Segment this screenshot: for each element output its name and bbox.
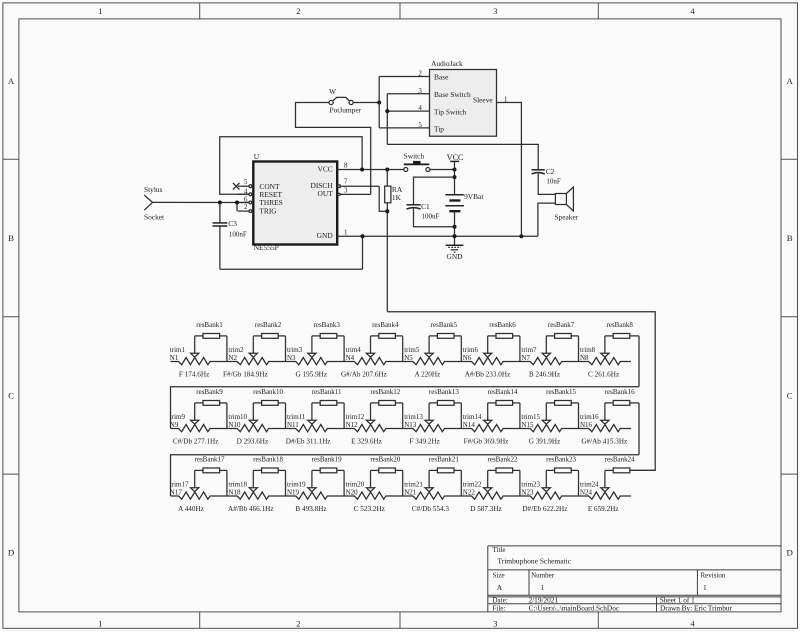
- svg-text:N22: N22: [463, 489, 476, 497]
- svg-text:G#/Ab 207.6Hz: G#/Ab 207.6Hz: [341, 371, 387, 379]
- svg-text:F#/Gb 369.9Hz: F#/Gb 369.9Hz: [464, 438, 509, 446]
- svg-text:N10: N10: [228, 421, 241, 429]
- svg-text:N7: N7: [521, 354, 530, 362]
- svg-text:N4: N4: [346, 354, 355, 362]
- svg-text:10nF: 10nF: [546, 178, 561, 186]
- svg-text:Size: Size: [493, 572, 505, 580]
- svg-text:resBank19: resBank19: [312, 456, 342, 464]
- svg-text:F#/Gb 184.9Hz: F#/Gb 184.9Hz: [223, 371, 268, 379]
- svg-text:trim9: trim9: [170, 413, 186, 421]
- svg-text:N2: N2: [228, 354, 237, 362]
- svg-text:E 329.6Hz: E 329.6Hz: [351, 438, 382, 446]
- svg-text:2: 2: [244, 204, 248, 211]
- svg-text:resBank10: resBank10: [253, 388, 283, 396]
- svg-text:N3: N3: [287, 354, 296, 362]
- svg-text:AudioJack: AudioJack: [431, 59, 463, 68]
- svg-text:resBank21: resBank21: [429, 456, 459, 464]
- svg-text:N12: N12: [346, 421, 359, 429]
- svg-text:B 493.8Hz: B 493.8Hz: [295, 505, 326, 513]
- svg-text:Tip: Tip: [434, 125, 444, 134]
- svg-text:resBank15: resBank15: [546, 388, 576, 396]
- svg-text:trim19: trim19: [287, 480, 306, 488]
- svg-text:1: 1: [703, 583, 707, 592]
- svg-text:resBank1: resBank1: [196, 321, 223, 329]
- svg-text:D 293.6Hz: D 293.6Hz: [237, 438, 269, 446]
- svg-text:A: A: [8, 76, 15, 86]
- svg-text:resBank2: resBank2: [255, 321, 282, 329]
- svg-text:Switch: Switch: [404, 152, 425, 161]
- svg-text:trim13: trim13: [404, 413, 423, 421]
- svg-text:trim8: trim8: [580, 346, 596, 354]
- svg-text:NE555P: NE555P: [254, 243, 279, 252]
- svg-text:VCC: VCC: [317, 164, 332, 173]
- svg-text:trim16: trim16: [580, 413, 599, 421]
- svg-text:resBank23: resBank23: [546, 456, 576, 464]
- svg-text:N5: N5: [404, 354, 413, 362]
- svg-text:B 246.9Hz: B 246.9Hz: [529, 371, 560, 379]
- svg-text:9VBat: 9VBat: [464, 192, 484, 201]
- svg-text:N20: N20: [346, 489, 359, 497]
- svg-text:D: D: [787, 548, 793, 558]
- svg-text:resBank4: resBank4: [372, 321, 399, 329]
- svg-text:Socket: Socket: [144, 213, 165, 222]
- svg-text:G 195.9Hz: G 195.9Hz: [296, 371, 328, 379]
- svg-text:trim21: trim21: [404, 480, 423, 488]
- svg-text:N16: N16: [580, 421, 593, 429]
- svg-text:trim12: trim12: [346, 413, 365, 421]
- svg-text:Revision: Revision: [701, 572, 726, 580]
- svg-text:resBank6: resBank6: [489, 321, 516, 329]
- svg-text:TRIG: TRIG: [259, 206, 277, 215]
- svg-text:trim4: trim4: [346, 346, 362, 354]
- svg-text:D#/Eb 311.1Hz: D#/Eb 311.1Hz: [286, 438, 331, 446]
- svg-text:E 659.2Hz: E 659.2Hz: [588, 505, 619, 513]
- svg-text:N19: N19: [287, 489, 300, 497]
- svg-text:7: 7: [344, 179, 348, 186]
- svg-text:F 174.6Hz: F 174.6Hz: [179, 371, 209, 379]
- svg-text:Title: Title: [493, 546, 506, 554]
- svg-text:D 587.3Hz: D 587.3Hz: [470, 505, 502, 513]
- svg-text:PotJumper: PotJumper: [330, 105, 362, 114]
- svg-text:2: 2: [296, 7, 300, 16]
- svg-text:resBank11: resBank11: [312, 388, 342, 396]
- svg-text:D#/Eb 622.2Hz: D#/Eb 622.2Hz: [522, 505, 567, 513]
- svg-text:resBank14: resBank14: [488, 388, 518, 396]
- svg-text:OUT: OUT: [317, 189, 333, 198]
- svg-text:N23: N23: [521, 489, 534, 497]
- svg-text:5: 5: [244, 179, 248, 186]
- svg-text:resBank9: resBank9: [196, 388, 223, 396]
- svg-text:A#/Bb 466.1Hz: A#/Bb 466.1Hz: [228, 505, 274, 513]
- svg-text:N17: N17: [170, 489, 183, 497]
- svg-text:C2: C2: [546, 167, 555, 176]
- svg-text:trim5: trim5: [404, 346, 420, 354]
- svg-text:trim18: trim18: [228, 480, 247, 488]
- svg-text:N13: N13: [404, 421, 417, 429]
- svg-text:trim7: trim7: [521, 346, 537, 354]
- svg-text:N18: N18: [228, 489, 241, 497]
- svg-text:N11: N11: [287, 421, 299, 429]
- svg-text:1K: 1K: [392, 193, 402, 202]
- svg-text:B: B: [787, 233, 793, 243]
- svg-text:G 391.9Hz: G 391.9Hz: [529, 438, 561, 446]
- svg-text:resBank3: resBank3: [313, 321, 340, 329]
- svg-text:File:: File:: [493, 604, 506, 612]
- svg-text:C: C: [8, 390, 14, 400]
- svg-text:A#/Bb 233.0Hz: A#/Bb 233.0Hz: [465, 371, 511, 379]
- svg-text:C#/Db 277.1Hz: C#/Db 277.1Hz: [173, 438, 219, 446]
- svg-text:C:\Users\..\mainBoard.SchDoc: C:\Users\..\mainBoard.SchDoc: [529, 603, 620, 612]
- svg-text:trim23: trim23: [521, 480, 540, 488]
- svg-text:1: 1: [98, 619, 102, 628]
- svg-text:trim10: trim10: [228, 413, 247, 421]
- svg-text:N21: N21: [404, 489, 417, 497]
- svg-text:Speaker: Speaker: [554, 213, 578, 222]
- svg-text:GND: GND: [317, 231, 334, 240]
- svg-text:N6: N6: [463, 354, 472, 362]
- svg-text:D: D: [8, 548, 14, 558]
- svg-text:trim20: trim20: [346, 480, 365, 488]
- svg-text:Trimbuphone Schematic: Trimbuphone Schematic: [497, 557, 571, 566]
- svg-text:VCC: VCC: [447, 153, 464, 162]
- svg-text:1: 1: [344, 229, 348, 236]
- svg-text:resBank24: resBank24: [605, 456, 635, 464]
- svg-text:1: 1: [98, 7, 102, 16]
- svg-text:Number: Number: [531, 572, 555, 580]
- svg-text:Base: Base: [434, 72, 449, 81]
- svg-text:2: 2: [296, 619, 300, 628]
- svg-text:W: W: [329, 87, 336, 96]
- svg-text:trim17: trim17: [170, 480, 189, 488]
- svg-text:C1: C1: [421, 202, 430, 211]
- svg-text:8: 8: [344, 162, 348, 169]
- svg-text:C#/Db 554.3: C#/Db 554.3: [412, 505, 450, 513]
- svg-text:Date:: Date:: [493, 596, 508, 604]
- svg-text:resBank22: resBank22: [488, 456, 518, 464]
- svg-text:Drawn By: Eric Trimbur: Drawn By: Eric Trimbur: [660, 603, 733, 612]
- svg-text:Stylus: Stylus: [144, 185, 163, 194]
- svg-text:A: A: [787, 76, 794, 86]
- svg-text:resBank17: resBank17: [195, 456, 225, 464]
- svg-text:G#/Ab 415.3Hz: G#/Ab 415.3Hz: [581, 438, 627, 446]
- svg-text:N14: N14: [463, 421, 476, 429]
- svg-text:C 261.6Hz: C 261.6Hz: [588, 371, 619, 379]
- svg-text:resBank5: resBank5: [431, 321, 458, 329]
- svg-text:N15: N15: [521, 421, 534, 429]
- svg-text:resBank18: resBank18: [253, 456, 283, 464]
- svg-text:C 523.2Hz: C 523.2Hz: [354, 505, 385, 513]
- svg-text:resBank8: resBank8: [606, 321, 633, 329]
- svg-text:trim15: trim15: [521, 413, 540, 421]
- svg-text:N9: N9: [170, 421, 179, 429]
- svg-text:C: C: [787, 390, 793, 400]
- svg-text:A: A: [497, 583, 503, 592]
- svg-text:3: 3: [493, 619, 497, 628]
- svg-text:B: B: [8, 233, 14, 243]
- svg-text:C3: C3: [228, 219, 237, 228]
- svg-text:resBank16: resBank16: [605, 388, 635, 396]
- svg-text:trim24: trim24: [580, 480, 599, 488]
- svg-text:GND: GND: [446, 252, 463, 261]
- svg-text:N1: N1: [170, 354, 179, 362]
- svg-text:1: 1: [541, 583, 545, 592]
- svg-text:trim22: trim22: [463, 480, 482, 488]
- svg-text:Base Switch: Base Switch: [434, 90, 471, 99]
- svg-text:100nF: 100nF: [229, 231, 247, 239]
- svg-text:A 440Hz: A 440Hz: [178, 505, 204, 513]
- svg-text:trim1: trim1: [170, 346, 186, 354]
- svg-text:Tip Switch: Tip Switch: [434, 107, 467, 116]
- svg-text:100uF: 100uF: [422, 212, 440, 220]
- svg-text:A 220Hz: A 220Hz: [415, 371, 441, 379]
- svg-text:resBank13: resBank13: [429, 388, 459, 396]
- svg-text:trim3: trim3: [287, 346, 303, 354]
- svg-text:3: 3: [344, 188, 348, 195]
- svg-text:trim6: trim6: [463, 346, 479, 354]
- svg-text:trim14: trim14: [463, 413, 482, 421]
- svg-text:F 349.2Hz: F 349.2Hz: [410, 438, 440, 446]
- svg-text:U: U: [254, 152, 260, 161]
- svg-text:resBank12: resBank12: [370, 388, 400, 396]
- svg-text:resBank20: resBank20: [370, 456, 400, 464]
- svg-text:Sleeve: Sleeve: [473, 95, 493, 104]
- svg-text:3: 3: [493, 7, 497, 16]
- svg-text:trim11: trim11: [287, 413, 306, 421]
- svg-text:N8: N8: [580, 354, 589, 362]
- svg-text:resBank7: resBank7: [548, 321, 575, 329]
- svg-text:N24: N24: [580, 489, 593, 497]
- svg-text:trim2: trim2: [228, 346, 244, 354]
